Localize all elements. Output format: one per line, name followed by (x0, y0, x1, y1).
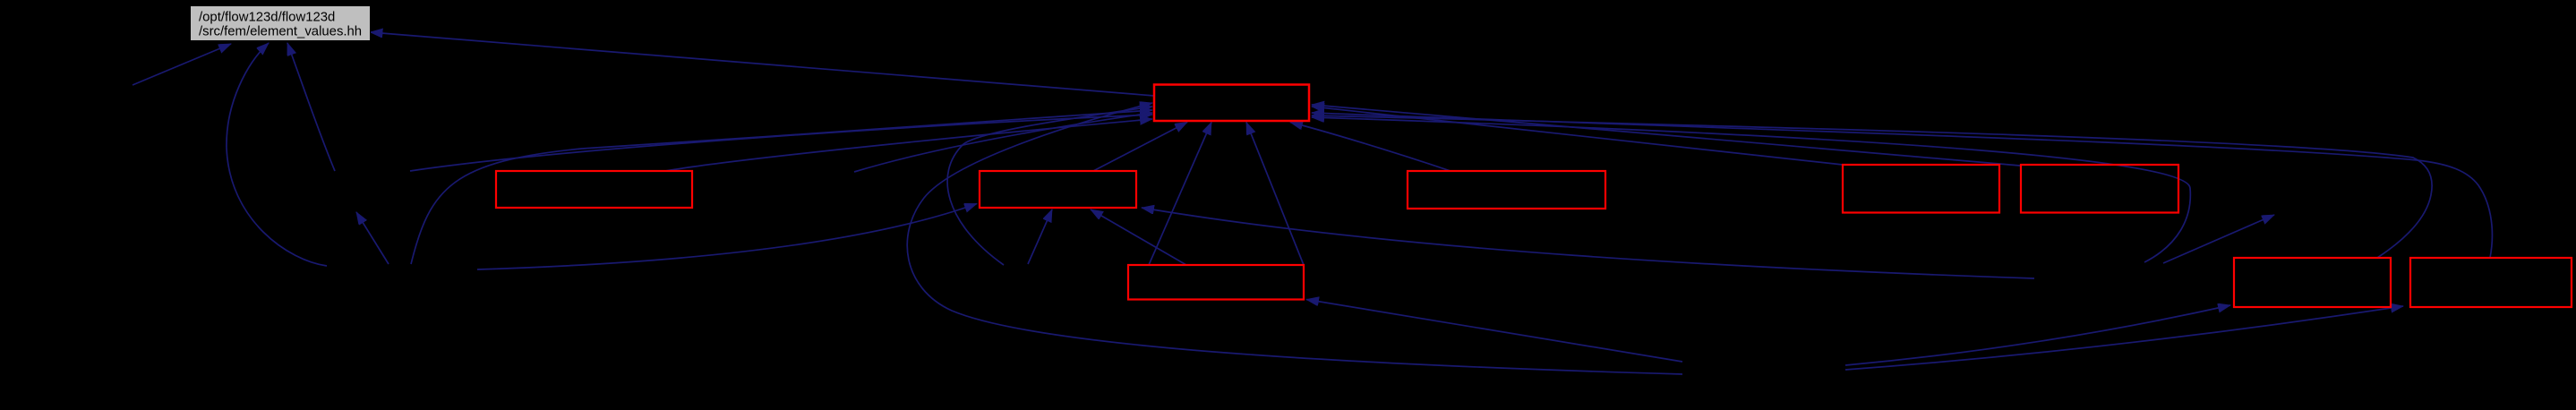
svg-text:/opt/flow123d/flow123d: /opt/flow123d/flow123d (199, 11, 335, 25)
svg-text:/src/fem/element_values.hh: /src/fem/element_values.hh (199, 25, 362, 39)
